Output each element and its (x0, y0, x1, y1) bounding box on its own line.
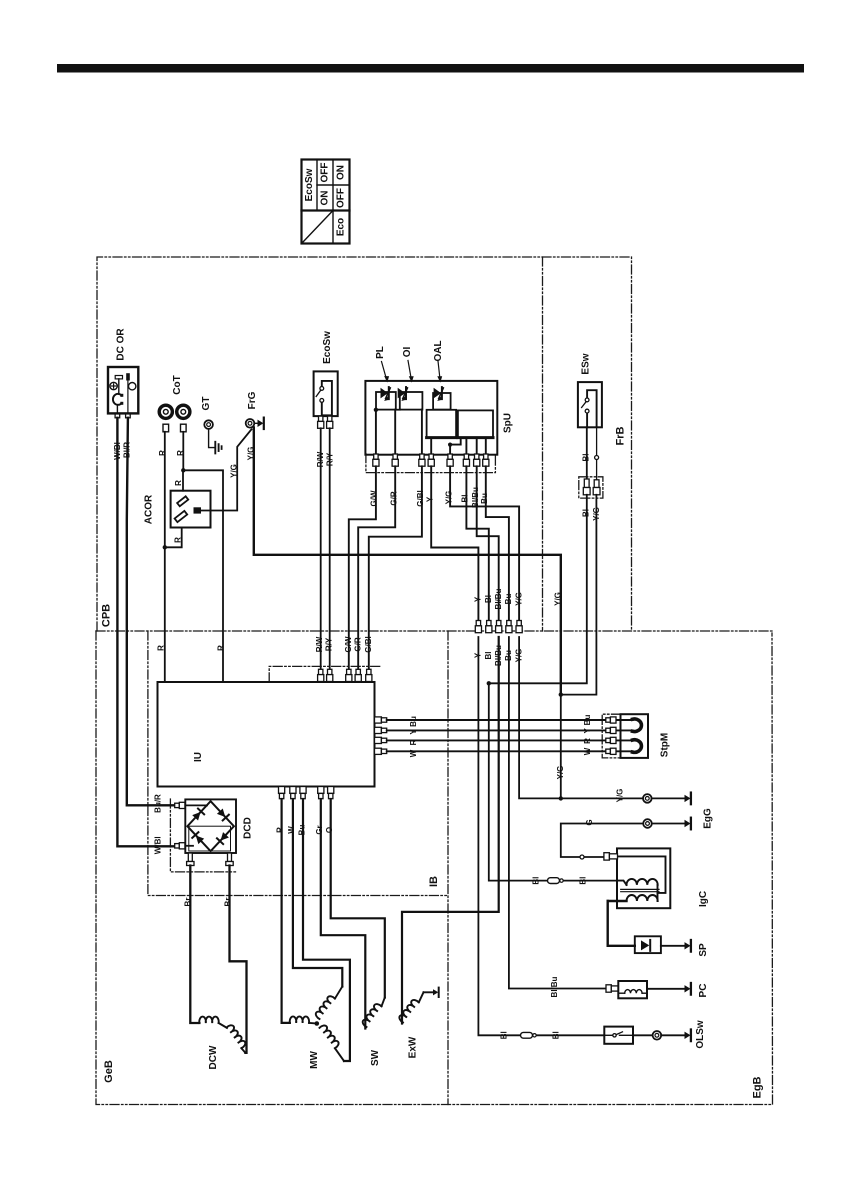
svg-text:OI: OI (402, 347, 413, 358)
svg-text:R/W: R/W (316, 451, 325, 467)
svg-text:G/R: G/R (389, 491, 398, 505)
svg-text:Y: Y (583, 727, 592, 733)
svg-text:DCW: DCW (208, 1045, 219, 1069)
coil IgC (ignition coil) (608, 848, 709, 908)
svg-text:Bl: Bl (484, 595, 493, 603)
svg-text:OFF: OFF (320, 163, 331, 183)
EcoSw position table (302, 160, 350, 244)
svg-text:Y/G: Y/G (444, 491, 453, 505)
svg-text:OFF: OFF (336, 188, 347, 208)
svg-text:R/Y: R/Y (326, 452, 335, 466)
svg-text:Bl: Bl (484, 652, 493, 660)
wire G/W SpU to IU (349, 466, 376, 669)
ground SP (685, 940, 691, 952)
svg-text:G/W: G/W (370, 490, 379, 506)
relay SpU-1 (427, 410, 457, 438)
wire W IU to MW (293, 799, 342, 987)
wire SpU internal leads (376, 410, 486, 455)
switch EcoSw (314, 331, 338, 416)
svg-text:R: R (276, 827, 285, 833)
wire Y IU to StpM (387, 729, 606, 731)
svg-text:ON: ON (320, 191, 331, 206)
svg-text:R: R (217, 645, 226, 651)
connector row Y/G (516, 621, 522, 633)
svg-text:G: G (585, 819, 594, 825)
motor StpM (stepper motor) (616, 714, 671, 758)
svg-text:SP: SP (698, 943, 709, 957)
pin SpU G/Bl (419, 454, 425, 466)
connector row Bl/Bu (496, 621, 502, 633)
svg-text:W: W (409, 749, 418, 757)
svg-text:IU: IU (193, 752, 204, 762)
svg-text:EgG: EgG (703, 808, 714, 829)
pin IU top R/Y (327, 669, 333, 681)
node junction G/W lamp (374, 408, 378, 412)
wire Y/G junction to EgG (560, 695, 562, 799)
svg-text:EcoSw: EcoSw (322, 331, 333, 364)
svg-text:R: R (409, 739, 418, 745)
winding ExW (exciter winding) (398, 992, 433, 1058)
svg-text:Bl/Bu: Bl/Bu (471, 487, 480, 508)
pin DCD bottom 1 (187, 853, 194, 866)
pin StpM Y (606, 727, 616, 733)
pin DCD left top (175, 802, 185, 808)
wire R IU to StpM (387, 739, 606, 741)
label OAL with arrow (433, 340, 444, 382)
svg-text:ACOR: ACOR (144, 494, 155, 524)
svg-text:R: R (158, 450, 167, 456)
svg-text:G/W: G/W (344, 636, 353, 652)
pin DC OR 1 (115, 413, 120, 417)
svg-text:OLSw: OLSw (695, 1020, 706, 1049)
ground EgG 1 (685, 793, 691, 805)
wire Y/G FrG to ACOR (201, 429, 252, 510)
node junction R (181, 468, 185, 472)
pin IU top G/Bl (366, 669, 372, 681)
svg-text:Bl: Bl (582, 454, 591, 462)
ground GT (215, 442, 221, 454)
svg-text:G/R: G/R (354, 637, 363, 651)
wire Y/G SpU to connector (450, 466, 519, 620)
wire Bu IU to StpM (387, 719, 606, 721)
terminal OLSw (653, 1031, 662, 1040)
wire R junction to IU (183, 470, 223, 682)
pin SpU G/R (392, 454, 398, 466)
frame CPB box (dash-dot) (96, 257, 773, 1105)
wire R/Y EcoSw to IU (329, 428, 331, 669)
svg-text:Y/G: Y/G (514, 592, 523, 606)
wire Y net to OLSw (478, 637, 604, 1035)
svg-text:Y: Y (409, 729, 418, 735)
svg-text:Y/G: Y/G (616, 789, 625, 803)
relay ACOR (144, 491, 211, 528)
node junction MW center (315, 1021, 320, 1026)
svg-text:CPB: CPB (101, 604, 113, 627)
svg-text:DC OR: DC OR (116, 328, 127, 361)
wire G EgG to IgC (561, 824, 643, 858)
pin EcoSw 1 (318, 416, 324, 428)
pin IU bottom O (328, 787, 334, 799)
relay SpU-2 (458, 410, 493, 437)
wire R/W EcoSw to IU (320, 428, 322, 669)
terminal EgG 2 (643, 819, 652, 828)
pin SpU Y/G (447, 454, 453, 466)
node junction Bl (487, 681, 491, 685)
wire EgG 2 to ground (652, 823, 685, 825)
label OI with arrow (402, 347, 414, 383)
svg-text:G/Bl: G/Bl (416, 490, 425, 506)
svg-text:W: W (583, 747, 592, 755)
pin IU bottom W (290, 787, 296, 799)
switch ESw (engine switch) (578, 353, 602, 427)
pin IU top R/W (318, 669, 324, 681)
connector inline IgC wire (548, 878, 564, 884)
wire R from CoT right (182, 432, 184, 471)
svg-text:R: R (156, 645, 165, 651)
svg-text:PL: PL (375, 346, 386, 359)
svg-text:GT: GT (201, 397, 212, 411)
wire G/R SpU to IU (358, 466, 395, 669)
pin StpM Bu (606, 717, 616, 723)
wire Bl SpU to connector (466, 466, 488, 620)
wire Y/G connector to EgG (519, 637, 643, 798)
wire Bl/R from DC OR to DCD (127, 418, 175, 806)
wire O IU to SW (331, 799, 385, 998)
switch OLSw (oil level switch) (604, 1027, 633, 1044)
svg-text:Bu: Bu (504, 594, 513, 605)
svg-text:Y/G: Y/G (592, 507, 601, 521)
wire Bl ESw to FrB connector (586, 427, 588, 479)
svg-text:Bu: Bu (480, 493, 489, 504)
wire W IU to StpM (387, 750, 606, 752)
wire Br DCD to DCW (190, 866, 199, 1024)
svg-text:FrG: FrG (247, 391, 258, 409)
wire W/Bl from DC OR to DCD (117, 418, 174, 847)
wire R from CoT left to IU (164, 432, 166, 682)
svg-text:Y/G: Y/G (554, 592, 563, 606)
wire Y/G FrG down to EgB (254, 428, 561, 695)
EcoSw table text (304, 163, 347, 237)
wire Bu IU to MW (303, 799, 350, 1061)
pin IU bottom Bu (300, 787, 306, 799)
wire SP to ground (661, 945, 685, 947)
pin IU right R (375, 737, 387, 743)
svg-text:W/Bl: W/Bl (113, 442, 122, 460)
pin DC OR 2 (126, 413, 131, 417)
svg-text:FrB: FrB (615, 426, 627, 445)
svg-text:StpM: StpM (660, 733, 671, 757)
wire lamp bus (396, 409, 400, 411)
pin DCD bottom 2 (226, 853, 233, 866)
svg-text:R: R (174, 480, 183, 486)
wire Gr IU to SW (321, 799, 366, 1029)
svg-text:Bl: Bl (532, 877, 541, 885)
winding DCW (DC winding) (199, 1017, 247, 1070)
label PL with arrow (375, 346, 389, 382)
wire Bu net to PC (509, 637, 606, 989)
svg-text:Bu: Bu (297, 825, 306, 836)
connector row Y (475, 621, 481, 633)
pin IU right Bu (375, 717, 387, 723)
svg-text:R: R (173, 537, 182, 543)
terminal EgG 1 (643, 794, 652, 803)
svg-text:CoT: CoT (172, 375, 183, 394)
pin SpU Bu (483, 454, 489, 466)
pin IU bottom R (279, 787, 285, 799)
svg-text:Gr: Gr (315, 825, 324, 834)
node junction Y/G EgG (559, 796, 563, 800)
node junction Y/G (559, 692, 563, 696)
ground FrG (254, 418, 263, 429)
svg-text:EcoSw: EcoSw (304, 168, 315, 201)
svg-text:Bl: Bl (552, 1031, 561, 1039)
svg-text:Bl/Bu: Bl/Bu (550, 976, 559, 997)
pin IU bottom Gr (318, 787, 324, 799)
svg-text:Bl: Bl (461, 495, 470, 503)
svg-text:Bl/R: Bl/R (122, 442, 131, 458)
svg-text:Y: Y (474, 596, 483, 602)
svg-text:SW: SW (370, 1049, 381, 1066)
wire Br DCD to DCW return (230, 866, 247, 1053)
pin IU top G/R (355, 669, 361, 681)
svg-text:IB: IB (428, 876, 440, 887)
wire Y/G FrB to junction (561, 495, 597, 695)
svg-text:IgC: IgC (698, 891, 709, 907)
ground EgG 2 (685, 818, 691, 830)
wire R junction to ACOR top (182, 470, 184, 490)
wire EgG 1 to ground (652, 797, 685, 799)
terminal CoT (charge output terminals) (159, 375, 190, 432)
diode SP (spark plug noise diode) (635, 936, 661, 953)
pin IU top G/W (346, 669, 352, 681)
svg-text:DCD: DCD (243, 817, 254, 839)
svg-text:O: O (325, 827, 334, 833)
svg-text:R/Y: R/Y (325, 637, 334, 651)
svg-text:Br: Br (224, 898, 233, 907)
connector circle G (580, 855, 584, 859)
wire R ACOR bottom to junction (165, 528, 182, 548)
svg-text:Y/G: Y/G (247, 447, 256, 461)
rectifier DCD (diode bridge) (184, 799, 253, 853)
svg-text:Y/G: Y/G (556, 766, 565, 780)
svg-text:R: R (583, 738, 592, 744)
svg-text:Eco: Eco (336, 218, 347, 236)
svg-text:R/W: R/W (315, 636, 324, 652)
ground OLSw (685, 1030, 691, 1042)
wire GT to ground (209, 429, 214, 448)
svg-text:W/Bl: W/Bl (153, 836, 162, 854)
pin FrB connector 2 (593, 480, 600, 495)
svg-text:R: R (176, 450, 185, 456)
pin EcoSw 2 (327, 416, 333, 428)
wire G/Bl SpU to IU (369, 466, 422, 669)
svg-text:Y: Y (425, 496, 434, 502)
unit SpU (signal panel unit) box (365, 381, 513, 455)
terminal GT (ground terminal) (201, 397, 213, 429)
svg-text:Bu: Bu (409, 716, 418, 727)
wire Bl/Bu net to ExW (402, 637, 499, 1024)
node junction SpU relay2 (448, 443, 452, 447)
ground ExW (433, 988, 439, 997)
wire IgC primary to SP (608, 901, 635, 946)
pin IU right Y (375, 727, 387, 733)
wire Bl FrB to Bl net (489, 495, 587, 684)
wire Bu SpU to connector (486, 466, 509, 620)
unit IU (inverter unit) (158, 682, 375, 787)
wire Y SpU to connector (431, 466, 478, 620)
svg-text:ExW: ExW (407, 1036, 418, 1058)
svg-text:GeB: GeB (103, 1060, 115, 1083)
svg-text:Bl: Bl (499, 1031, 508, 1039)
pin SpU G/W (373, 454, 379, 466)
pin StpM W (606, 748, 616, 754)
pin IgC (604, 853, 618, 860)
connector circle ESw (595, 456, 599, 460)
wire Bl net to IgC (489, 683, 617, 880)
svg-text:MW: MW (309, 1051, 320, 1069)
lamp OI (398, 387, 423, 410)
svg-text:Bl/Bu: Bl/Bu (494, 588, 503, 609)
svg-text:Bl: Bl (582, 509, 591, 517)
coil PC (pulse coil) (618, 981, 647, 998)
node junction CoT-ACOR (163, 545, 167, 549)
svg-text:OAL: OAL (433, 340, 444, 361)
wire OLSw to ground (633, 1034, 685, 1036)
connector row Bl (486, 621, 492, 633)
pin StpM R (606, 737, 616, 743)
pin IU right W (375, 748, 387, 754)
pin PC (606, 985, 618, 992)
wire R IU to MW (282, 799, 290, 1023)
svg-text:Br: Br (184, 898, 193, 907)
title rule bar (57, 64, 804, 73)
svg-text:ON: ON (336, 165, 347, 180)
svg-text:SpU: SpU (503, 413, 514, 433)
wire Bl/Bu SpU to connector (477, 466, 499, 620)
svg-text:EgB: EgB (752, 1076, 764, 1098)
lamp PL (376, 387, 396, 410)
connector DC OR (DC outlet receptacle) (108, 328, 138, 414)
svg-text:Bu/R: Bu/R (153, 794, 162, 813)
pin SpU Bl (463, 454, 469, 466)
pin DCD left bottom (175, 843, 185, 849)
connector inline OLSw wire (521, 1032, 537, 1038)
ground PC (685, 983, 691, 995)
winding SW (sub winding) (361, 998, 385, 1067)
winding MW (main winding) (290, 987, 344, 1069)
lamp OAL (433, 387, 451, 410)
wire ESw right lead (596, 427, 598, 480)
svg-text:ESw: ESw (581, 353, 592, 374)
pin SpU Y (428, 454, 434, 466)
svg-text:G/Bl: G/Bl (364, 636, 373, 652)
svg-text:Bu: Bu (583, 715, 592, 726)
pin SpU Bl/Bu (474, 454, 480, 466)
wire PC to ground (647, 988, 685, 990)
terminal FrG (frame ground) (246, 391, 258, 427)
pin FrB connector 1 (583, 479, 590, 495)
svg-text:Bl: Bl (579, 877, 588, 885)
svg-text:PC: PC (698, 984, 709, 998)
svg-text:Y/G: Y/G (230, 464, 239, 478)
svg-text:W: W (287, 826, 296, 834)
connector row Bu (506, 621, 512, 633)
